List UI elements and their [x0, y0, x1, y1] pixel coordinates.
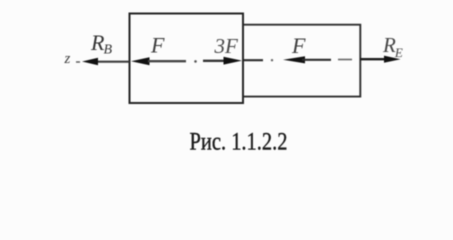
force arrow F in small section (points left): [283, 56, 305, 63]
svg-text:z: z: [64, 51, 71, 67]
svg-text:RB: RB: [90, 30, 112, 58]
centerline dot: [194, 60, 197, 63]
small bar section (right rectangle): [244, 25, 360, 97]
svg-text:F: F: [150, 33, 165, 58]
centerline segment at step: [244, 59, 263, 61]
force arrow 3F in large section (points right): [203, 60, 225, 62]
svg-text:Рис. 1.1.2.2: Рис. 1.1.2.2: [190, 128, 288, 157]
reaction arrow R_E (points right): [360, 58, 388, 60]
reaction arrow R_B (points left): [95, 61, 129, 63]
centerline dot: [271, 59, 273, 61]
dash before arrowhead: [76, 61, 80, 63]
large bar section (left rectangle): [130, 14, 244, 104]
force arrow F in large section (points left): [131, 57, 150, 65]
centerline dash: [338, 59, 352, 61]
svg-text:RE: RE: [382, 33, 403, 60]
svg-text:F: F: [291, 33, 306, 58]
svg-text:3F: 3F: [214, 34, 239, 58]
